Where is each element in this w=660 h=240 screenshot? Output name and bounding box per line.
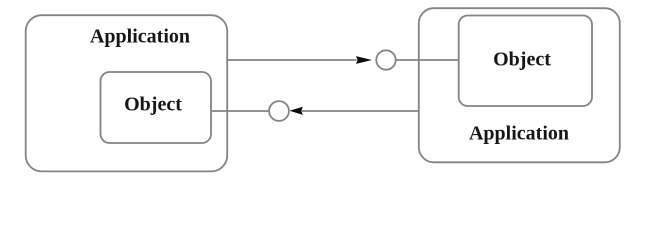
- right Object box: [459, 16, 592, 107]
- svg-text:Application: Application: [469, 123, 569, 145]
- arrowhead (pointing right into top circle): [356, 56, 372, 64]
- svg-text:Object: Object: [124, 94, 182, 116]
- right Application box: [419, 8, 620, 162]
- wire: bottom circle to left Object box: [211, 110, 269, 112]
- arrowhead (pointing left into bottom circle): [290, 107, 303, 115]
- wire: right Application to bottom arrow: [302, 110, 419, 112]
- interface circle (top): [376, 50, 395, 69]
- left Application box: [26, 15, 228, 171]
- left Object box: [101, 72, 212, 143]
- svg-text:Application: Application: [90, 26, 190, 48]
- interface circle (bottom): [269, 101, 289, 121]
- wire: left Application to top arrow: [227, 59, 357, 61]
- svg-text:Object: Object: [493, 49, 551, 71]
- wire: top circle to right Object box: [396, 59, 459, 61]
